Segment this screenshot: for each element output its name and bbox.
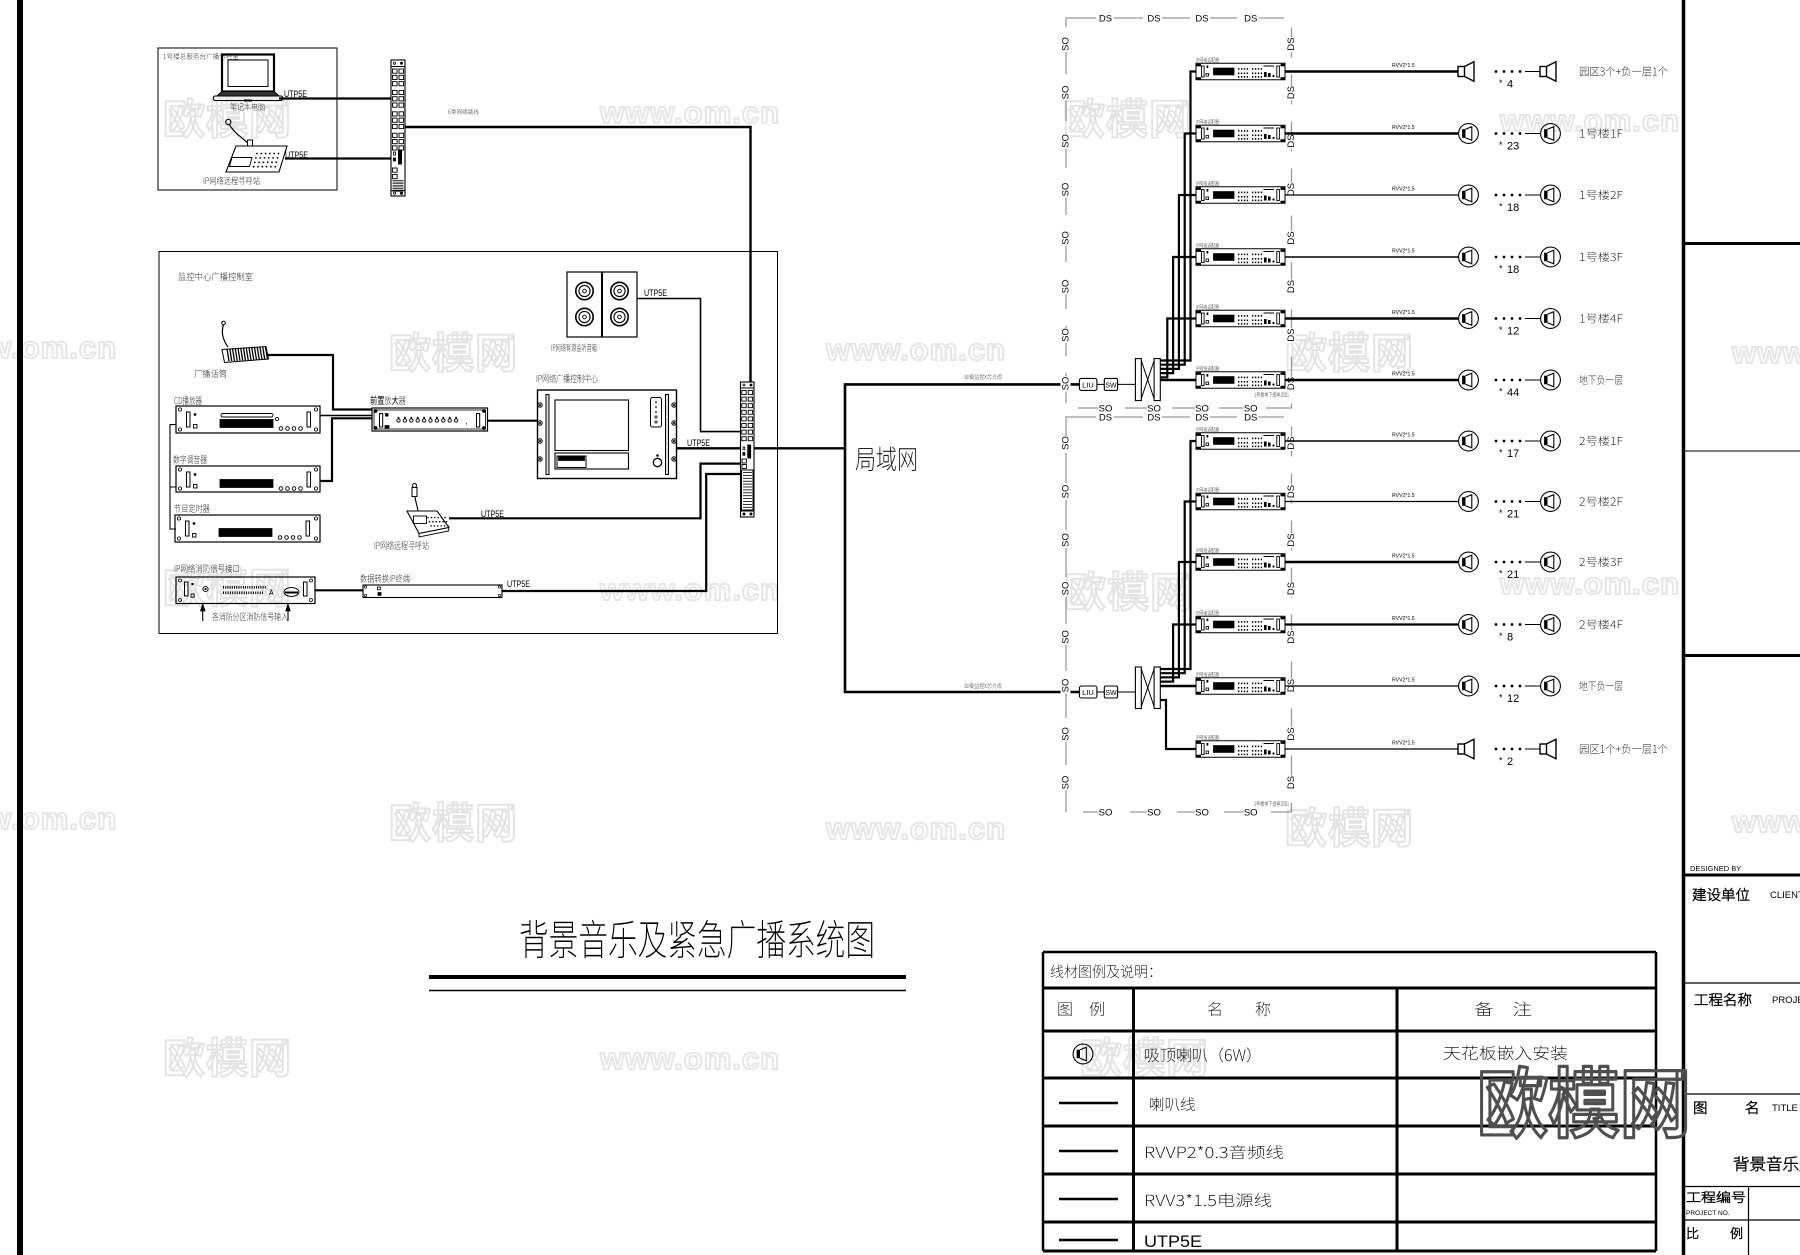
svg-text:8: 8 (1507, 632, 1513, 644)
svg-text:吸顶喇叭（6W）: 吸顶喇叭（6W） (1144, 1042, 1262, 1066)
speaker circuit 1号楼3F (1285, 247, 1623, 276)
svg-text:DS: DS (1286, 776, 1297, 789)
svg-text:图 例: 图 例 (1057, 996, 1105, 1020)
speaker circuit 园区1个+负一层1个 (1285, 739, 1668, 768)
svg-text:RVV2*1.5: RVV2*1.5 (1392, 616, 1415, 622)
wire preamp to control center (488, 420, 538, 422)
preamp 前置放大器 (372, 408, 488, 431)
svg-text:2: 2 (1507, 756, 1513, 768)
svg-text:4: 4 (1507, 79, 1513, 91)
LAN 局域网 (845, 384, 1079, 692)
svg-text:图: 图 (1693, 1097, 1708, 1118)
svg-text:2号楼1F: 2号楼1F (1579, 433, 1623, 449)
svg-text:DS: DS (1286, 280, 1297, 293)
svg-text:单模监控X芯光缆: 单模监控X芯光缆 (964, 372, 1002, 381)
svg-text:RVV2*1.5: RVV2*1.5 (1392, 310, 1415, 316)
svg-text:RVV2*1.5: RVV2*1.5 (1392, 125, 1415, 131)
speaker circuit 1号楼1F (1285, 124, 1623, 153)
svg-text:1号楼地下弱电间01: 1号楼地下弱电间01 (1254, 390, 1289, 399)
svg-text:1号楼3F: 1号楼3F (1579, 249, 1623, 265)
svg-text:SO: SO (1061, 776, 1072, 790)
svg-text:工程名称: 工程名称 (1694, 989, 1752, 1010)
IP network adapter IP网络适配器 (1196, 609, 1285, 633)
SW box G2 (1104, 686, 1117, 698)
svg-text:RVV2*1.5: RVV2*1.5 (1392, 741, 1415, 747)
svg-text:DS: DS (1147, 14, 1160, 25)
svg-text:*: * (1499, 448, 1503, 458)
svg-text:DS: DS (1195, 413, 1208, 424)
svg-text:RVV3*1.5电源线: RVV3*1.5电源线 (1144, 1189, 1272, 1211)
svg-text:DS: DS (1286, 582, 1297, 595)
IP network adapter IP网络适配器 (1196, 486, 1285, 510)
svg-text:CLIENT: CLIENT (1770, 890, 1800, 901)
svg-text:厂播话筒: 厂播话筒 (194, 367, 227, 380)
svg-text:RVV2*1.5: RVV2*1.5 (1392, 493, 1415, 499)
svg-text:*: * (1499, 325, 1503, 335)
svg-text:SO: SO (1195, 808, 1209, 819)
speaker circuit 2号楼3F (1285, 552, 1623, 581)
paging station 2 IP网络远程寻呼站 (407, 484, 449, 538)
fiber splice symbol G2 (1118, 691, 1136, 693)
svg-text:SO: SO (1061, 328, 1072, 342)
svg-text:DS: DS (1147, 413, 1160, 424)
svg-text:SO: SO (1061, 582, 1072, 596)
svg-text:IP网络远程寻呼站: IP网络远程寻呼站 (374, 538, 429, 552)
svg-text:SO: SO (1244, 808, 1258, 819)
speaker circuit 1号楼4F (1285, 309, 1623, 338)
svg-text:2号楼4F: 2号楼4F (1579, 617, 1623, 633)
svg-text:欧模网: 欧模网 (1285, 795, 1414, 856)
LIU box G1 (1079, 378, 1097, 390)
LIU box G2 (1079, 686, 1097, 698)
svg-text:*: * (1499, 387, 1503, 397)
speaker circuit 2号楼2F (1285, 492, 1623, 521)
svg-text:欧模网: 欧模网 (389, 320, 518, 381)
fire interface IP网络消防信号接口 (176, 577, 315, 604)
svg-text:SO: SO (1061, 377, 1072, 391)
svg-text:23: 23 (1507, 141, 1519, 153)
svg-text:例: 例 (1730, 1223, 1743, 1242)
svg-text:RVV2*1.5: RVV2*1.5 (1392, 678, 1415, 684)
svg-text:*: * (1499, 140, 1503, 150)
wire fire to terminal (315, 589, 363, 591)
svg-text:DS: DS (1099, 14, 1112, 25)
svg-text:SO: SO (1061, 485, 1072, 499)
fire inputs arrows 各消防分区消防信号输入 (201, 604, 291, 621)
svg-text:地下负一层: 地下负一层 (1579, 372, 1623, 388)
dashed equipment room box 1号楼 (1066, 18, 1292, 408)
wire tuner to preamp (320, 418, 372, 481)
svg-text:21: 21 (1507, 509, 1519, 521)
svg-text:www.om.cn: www.om.cn (1499, 566, 1680, 601)
speaker circuit 1号楼2F (1285, 185, 1623, 214)
svg-text:2号楼3F: 2号楼3F (1579, 554, 1623, 570)
svg-text:DESIGNED BY: DESIGNED BY (1690, 864, 1741, 873)
microphone 厂播话筒 (222, 321, 269, 362)
svg-text:*: * (1499, 264, 1503, 274)
svg-text:UTP5E: UTP5E (1144, 1232, 1202, 1251)
svg-text:DS: DS (1286, 630, 1297, 643)
svg-text:RVV2*1.5: RVV2*1.5 (1392, 433, 1415, 439)
wire mic to preamp (268, 355, 372, 410)
svg-text:SO: SO (1061, 134, 1072, 148)
svg-text:比: 比 (1686, 1223, 1699, 1242)
legend wire samples (1059, 1102, 1118, 1104)
svg-text:DS: DS (1286, 436, 1297, 449)
svg-text:SO: SO (1061, 231, 1072, 245)
svg-text:园区3个+负一层1个: 园区3个+负一层1个 (1579, 64, 1668, 80)
svg-text:18: 18 (1507, 202, 1519, 214)
svg-text:欧模网: 欧模网 (1477, 1043, 1691, 1153)
svg-text:各消防分区消防信号输入: 各消防分区消防信号输入 (212, 609, 288, 623)
svg-text:IP网络消防信号接口: IP网络消防信号接口 (174, 561, 240, 575)
svg-text:*: * (1499, 569, 1503, 579)
svg-text:6类网络跳线: 6类网络跳线 (448, 107, 479, 116)
speaker circuit 地下负一层 (1285, 370, 1623, 399)
svg-text:前置放大器: 前置放大器 (370, 393, 406, 407)
svg-text:园区1个+负一层1个: 园区1个+负一层1个 (1579, 741, 1668, 757)
IP network adapter IP网络适配器 (1196, 118, 1285, 142)
rack device 数字调音器 (176, 466, 320, 492)
svg-text:DS: DS (1286, 328, 1297, 341)
svg-text:DS: DS (1286, 134, 1297, 147)
speaker circuit 2号楼4F (1285, 615, 1623, 644)
svg-text:LIU: LIU (1082, 380, 1094, 389)
svg-text:欧模网: 欧模网 (1064, 559, 1193, 620)
svg-text:www.om.cn: www.om.cn (599, 1041, 780, 1076)
svg-text:备 注: 备 注 (1474, 996, 1532, 1020)
svg-text:SO: SO (1061, 679, 1072, 693)
dashed equipment room box 2号楼 (1066, 417, 1292, 812)
svg-text:笔记本电脑: 笔记本电脑 (230, 101, 265, 113)
svg-text:欧模网: 欧模网 (389, 790, 518, 851)
svg-text:,: , (466, 417, 468, 426)
speaker circuit 地下负一层 (1285, 676, 1623, 705)
monitor speakers IP网络有源监听音箱 (567, 272, 637, 337)
svg-text:背景音乐及紧急广播系统图: 背景音乐及紧急广播系统图 (519, 907, 875, 968)
svg-text:www.om.cn: www.om.cn (825, 332, 1006, 367)
network switch control-room (741, 382, 755, 517)
svg-text:SO: SO (1061, 86, 1072, 100)
svg-text:DS: DS (1286, 37, 1297, 50)
svg-text:DS: DS (1286, 533, 1297, 546)
svg-text:名 称: 名 称 (1207, 996, 1271, 1020)
svg-text:21: 21 (1507, 569, 1519, 581)
svg-text:SO: SO (1147, 808, 1161, 819)
svg-text:*: * (1499, 693, 1503, 703)
svg-text:单模监控X芯光缆: 单模监控X芯光缆 (964, 681, 1002, 690)
svg-text:PROJECT NO.: PROJECT NO. (1686, 1210, 1730, 1217)
IP network adapter IP网络适配器 (1196, 365, 1285, 389)
IP network adapter IP网络适配器 (1196, 734, 1285, 758)
svg-text:UTP5E: UTP5E (507, 579, 530, 590)
IP network adapter IP网络适配器 (1196, 671, 1285, 695)
svg-text:DS: DS (1244, 14, 1257, 25)
svg-text:18: 18 (1507, 264, 1519, 276)
svg-text:数字调音器: 数字调音器 (173, 452, 207, 466)
svg-text:监控中心广播控制室: 监控中心广播控制室 (178, 269, 253, 283)
svg-text:RVV2*1.5: RVV2*1.5 (1392, 63, 1415, 69)
svg-text:线材图例及说明：: 线材图例及说明： (1050, 961, 1162, 982)
svg-text:工程编号: 工程编号 (1686, 1187, 1746, 1206)
SW box G1 (1104, 378, 1117, 390)
IP network adapter IP网络适配器 (1196, 180, 1285, 204)
svg-text:SO: SO (1061, 183, 1072, 197)
svg-text:欧模网: 欧模网 (163, 1025, 292, 1086)
room box: 监控中心广播控制室 (159, 252, 778, 634)
svg-text:DS: DS (1286, 231, 1297, 244)
speaker circuit 园区3个+负一层1个 (1285, 62, 1668, 91)
IP network adapter IP网络适配器 (1196, 547, 1285, 571)
svg-text:*: * (1499, 202, 1503, 212)
watermark layer (0, 86, 1800, 1086)
svg-text:DS: DS (1286, 86, 1297, 99)
adapter feed wires G2 (1160, 441, 1196, 669)
svg-text:Å: Å (269, 588, 274, 597)
svg-text:www.om.cn: www.om.cn (599, 572, 780, 607)
svg-text:SO: SO (1061, 533, 1072, 547)
laptop 笔记本电脑 (214, 55, 283, 101)
legend speaker icon 吸顶喇叭 (1073, 1044, 1093, 1064)
svg-text:www.om.cn: www.om.cn (825, 811, 1006, 846)
IP network adapter IP网络适配器 (1196, 303, 1285, 327)
svg-text:RVV2*1.5: RVV2*1.5 (1392, 554, 1415, 560)
svg-text:2号楼2F: 2号楼2F (1579, 494, 1623, 510)
svg-text:名: 名 (1745, 1097, 1760, 1118)
svg-text:SO: SO (1061, 280, 1072, 294)
svg-text:地下负一层: 地下负一层 (1579, 678, 1623, 694)
svg-text:DS: DS (1286, 485, 1297, 498)
rack device CD播放器 (176, 406, 320, 433)
svg-text:背景音乐及紧急广播系统图: 背景音乐及紧急广播系统图 (1733, 1151, 1800, 1175)
svg-text:数据转换IP终端: 数据转换IP终端 (360, 571, 410, 585)
svg-text:17: 17 (1507, 448, 1519, 460)
svg-text:DS: DS (1244, 413, 1257, 424)
svg-text:*: * (1499, 508, 1503, 518)
svg-text:喇叭线: 喇叭线 (1149, 1093, 1196, 1115)
svg-text:*: * (1499, 78, 1503, 88)
switch A connector/media section (399, 150, 402, 164)
data terminal 数据转换IP终端 (363, 585, 502, 598)
svg-text:CD播放器: CD播放器 (174, 393, 202, 407)
svg-text:SO: SO (1061, 436, 1072, 450)
svg-text:1号楼1F: 1号楼1F (1579, 126, 1623, 142)
svg-text:DS: DS (1286, 183, 1297, 196)
IP network adapter IP网络适配器 (1196, 242, 1285, 266)
rack device 节目定时器 (175, 515, 320, 542)
svg-text:IP网络有源监听音箱: IP网络有源监听音箱 (551, 341, 597, 354)
IP network adapter IP网络适配器 (1196, 56, 1285, 80)
page left border (17, 0, 23, 1255)
control center IP网络广播控制中心 (538, 390, 677, 479)
svg-text:DS: DS (1195, 14, 1208, 25)
svg-text:*: * (1499, 756, 1503, 766)
svg-text:SO: SO (1061, 630, 1072, 644)
svg-text:DS: DS (1099, 413, 1112, 424)
svg-text:www.om.cn: www.om.cn (1731, 804, 1800, 839)
svg-text:2号楼地下弱电间01: 2号楼地下弱电间01 (1254, 799, 1289, 808)
svg-text:SW: SW (1105, 690, 1117, 697)
paging station 1: IP网络远程寻呼站 (226, 119, 287, 172)
svg-text:12: 12 (1507, 693, 1519, 705)
svg-text:1号楼4F: 1号楼4F (1579, 311, 1623, 327)
svg-text:RVV2*1.5: RVV2*1.5 (1392, 372, 1415, 378)
svg-text:SO: SO (1099, 808, 1113, 819)
IP network adapter IP网络适配器 (1196, 426, 1285, 450)
svg-text:RVV2*1.5: RVV2*1.5 (1392, 187, 1415, 193)
svg-text:PROJECT: PROJECT (1772, 995, 1800, 1006)
svg-text:IP网络远程寻呼站: IP网络远程寻呼站 (203, 174, 260, 187)
speaker circuit 2号楼1F (1285, 431, 1623, 460)
title block frame (1684, 0, 1800, 1255)
svg-text:RVV2*1.5: RVV2*1.5 (1392, 249, 1415, 255)
legend table 线材图例及说明 (1043, 952, 1656, 1251)
svg-text:1号楼2F: 1号楼2F (1579, 187, 1623, 203)
title underline (429, 975, 906, 979)
left daisy chain wire (170, 425, 176, 529)
wire CD to preamp (320, 415, 372, 417)
adapter feed wires G1 (1160, 72, 1196, 361)
svg-text:*: * (1499, 631, 1503, 641)
svg-text:局域网: 局域网 (855, 438, 918, 477)
svg-text:DS: DS (1286, 727, 1297, 740)
svg-text:LIU: LIU (1082, 688, 1094, 697)
svg-text:IP网络广播控制中心: IP网络广播控制中心 (536, 371, 598, 385)
svg-text:www.om.cn: www.om.cn (1731, 335, 1800, 370)
svg-text:欧模网: 欧模网 (1063, 86, 1192, 147)
fiber splice symbol G1 (1118, 383, 1136, 385)
svg-text:SO: SO (1061, 37, 1072, 51)
svg-text:www.om.cn: www.om.cn (599, 95, 780, 130)
network switch SW-A upper ports (391, 60, 405, 196)
svg-text:TITLE: TITLE (1772, 1103, 1798, 1114)
svg-text:44: 44 (1507, 387, 1519, 399)
svg-text:12: 12 (1507, 326, 1519, 338)
svg-text:UTP5E: UTP5E (644, 288, 667, 299)
svg-text:SO: SO (1061, 727, 1072, 741)
svg-text:节目定时器: 节目定时器 (174, 501, 210, 515)
svg-text:RVVP2*0.3音频线: RVVP2*0.3音频线 (1144, 1141, 1284, 1163)
svg-text:SW: SW (1105, 382, 1117, 389)
room box: 1号楼总服务台广播分控室 (158, 48, 337, 190)
svg-text:建设单位: 建设单位 (1692, 884, 1750, 905)
